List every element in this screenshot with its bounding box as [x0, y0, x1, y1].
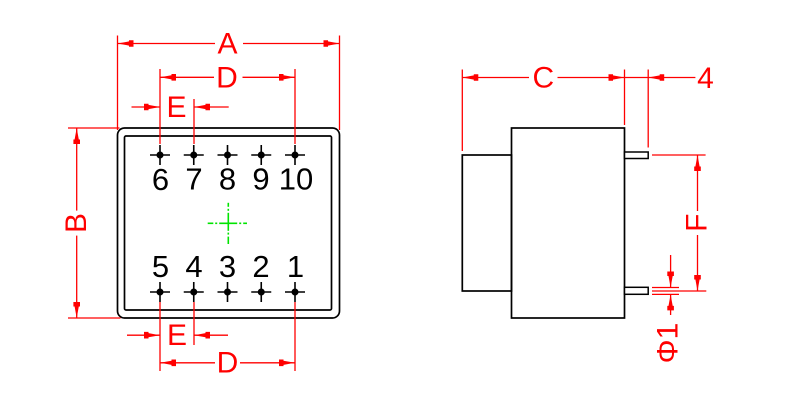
- svg-text:8: 8: [219, 162, 236, 197]
- pin 6: [150, 145, 170, 165]
- svg-text:3: 3: [219, 249, 236, 284]
- dimension D (bottom): [160, 302, 295, 380]
- side view bottom pin: [625, 287, 649, 294]
- pin 4: [184, 282, 204, 302]
- pin 2: [251, 282, 271, 302]
- svg-text:E: E: [166, 91, 186, 124]
- dimension F: [652, 155, 714, 291]
- dimension B: [60, 128, 120, 318]
- dimension D (top): [160, 62, 295, 144]
- svg-text:E: E: [167, 319, 187, 352]
- green center mark: [208, 203, 247, 244]
- pin 1: [285, 282, 305, 302]
- svg-text:2: 2: [252, 249, 269, 284]
- svg-text:9: 9: [252, 162, 269, 197]
- side view main body: [512, 128, 625, 318]
- dimension A: [118, 27, 340, 130]
- pin 3: [218, 282, 238, 302]
- svg-text:Φ1: Φ1: [652, 323, 685, 364]
- pin 10: [285, 145, 305, 165]
- svg-text:4: 4: [185, 249, 202, 284]
- svg-text:F: F: [681, 214, 714, 232]
- inner package outline (top view): [125, 136, 332, 310]
- pin number labels 6 7 8 9 10: [152, 162, 313, 197]
- svg-text:6: 6: [152, 162, 169, 197]
- svg-text:D: D: [217, 347, 239, 380]
- dimension 4 (pin length): [625, 62, 714, 148]
- pin 8: [218, 145, 238, 165]
- side view top pin: [625, 152, 649, 159]
- pin 7: [184, 145, 204, 165]
- svg-text:7: 7: [185, 162, 202, 197]
- svg-text:4: 4: [697, 62, 714, 95]
- svg-text:C: C: [532, 62, 554, 95]
- pin number labels 5 4 3 2 1: [152, 249, 304, 284]
- pin 5: [150, 282, 170, 302]
- svg-text:A: A: [217, 27, 237, 60]
- svg-text:1: 1: [287, 249, 304, 284]
- dimension E (bottom): [127, 302, 228, 371]
- svg-text:B: B: [60, 213, 93, 233]
- side view left flange block: [462, 155, 511, 291]
- dimension Phi1 (pin diameter): [652, 255, 685, 363]
- svg-text:5: 5: [152, 249, 169, 284]
- dimension E (top): [132, 91, 229, 144]
- svg-text:D: D: [216, 62, 238, 95]
- outer package outline (top view): [118, 128, 340, 318]
- svg-text:10: 10: [279, 162, 313, 197]
- dimension C: [462, 62, 624, 151]
- pin 9: [251, 145, 271, 165]
